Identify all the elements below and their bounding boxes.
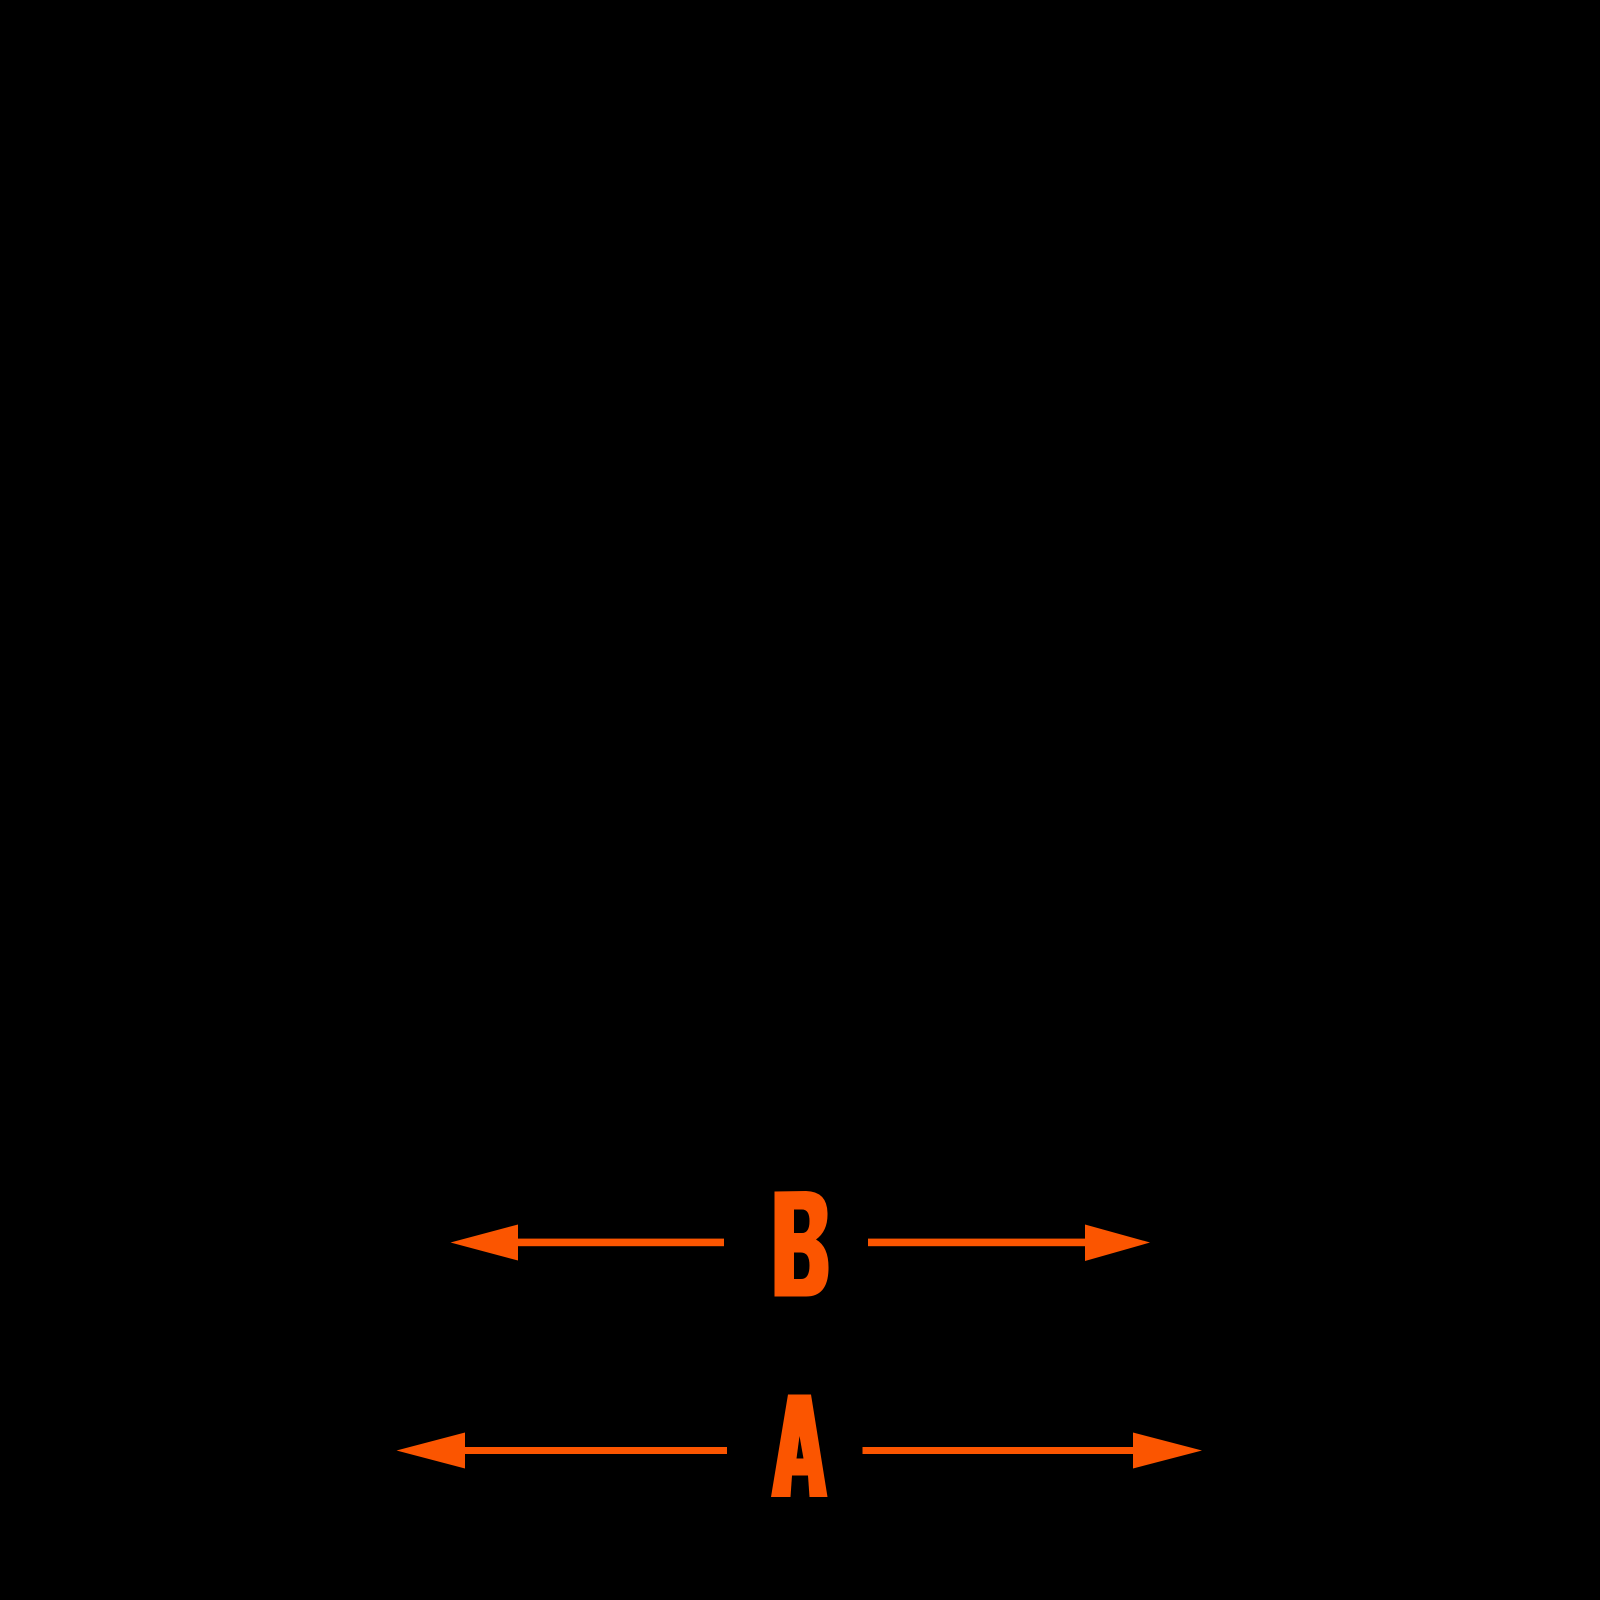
label B	[775, 1191, 829, 1297]
dimension arrow B right head	[1085, 1225, 1150, 1262]
dimension arrow A right head	[1133, 1433, 1202, 1469]
dimension arrow B left head	[451, 1225, 519, 1261]
label A	[771, 1395, 828, 1498]
dimension arrow A left head	[397, 1433, 466, 1469]
dimension arrow A left shaft	[459, 1447, 727, 1454]
dimension arrow B left shaft	[512, 1239, 724, 1247]
dimension arrow A right shaft	[863, 1447, 1135, 1454]
dimension arrow B right shaft	[868, 1239, 1090, 1247]
